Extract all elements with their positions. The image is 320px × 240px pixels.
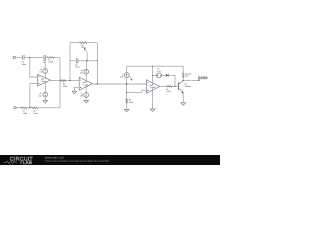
wire OA3 V- to ground (152, 88, 154, 109)
wire to OA3 non-inverting input (127, 90, 147, 92)
wire input to C1 (16, 56, 23, 58)
wire C1 to feedback node (24, 56, 44, 58)
wire V4 to ground (85, 97, 87, 100)
op-amp OA1 (37, 74, 50, 86)
resistor R3 interstage (61, 80, 66, 82)
watermark text (45, 157, 109, 164)
transistor Q1 (178, 81, 183, 94)
ground below R6 (124, 109, 129, 112)
svg-text:10.0k: 10.0k (63, 85, 67, 88)
capacitor C3 stage2 (76, 58, 78, 63)
junction output node stage1 (59, 80, 60, 81)
CircuitLab logo (4, 156, 34, 165)
label I1 value (120, 73, 124, 78)
junction + input branch (126, 92, 127, 93)
label R4 value (33, 110, 37, 115)
current source I1 body (124, 73, 129, 78)
wire OA3 output (160, 85, 167, 87)
wire I1 to R6 (126, 78, 128, 99)
ground below OA3 (150, 109, 155, 112)
terminal bottom VB (14, 107, 16, 109)
junction V5 branch (152, 75, 153, 76)
svg-text:1.00u: 1.00u (22, 63, 27, 66)
label R2 value (48, 58, 53, 63)
wire mid line right (78, 60, 97, 62)
label R7 value (166, 88, 170, 93)
resistor R4 bottom (31, 107, 38, 109)
wire OA2 non-inverting to ground (74, 87, 79, 91)
label R5 value (81, 44, 85, 49)
label C2 value (43, 59, 45, 64)
wire stage2 loop left vertical (69, 43, 71, 81)
wire stage2 loop right vertical (96, 43, 98, 84)
wire collector to output flag (183, 79, 198, 81)
voltage source V5 (157, 73, 162, 78)
wire R4 to stage1 right vertical (38, 107, 60, 109)
terminal input VA (13, 56, 15, 58)
wire OA2 output to OA3 (93, 83, 147, 85)
wire R3 to OA2 inverting input (66, 80, 79, 82)
wire mid line left (70, 60, 76, 62)
diode D1 (166, 74, 169, 77)
wire collector to R8 (182, 78, 184, 81)
label C3 value (75, 63, 79, 68)
label R6 value (129, 99, 133, 104)
wire emitter to ground (182, 92, 184, 103)
op-amp OA2 (79, 77, 92, 90)
svg-text:LAB: LAB (23, 160, 32, 165)
svg-text:1.00M: 1.00M (48, 61, 53, 64)
label C1 value (22, 61, 27, 66)
label Q1 value (185, 83, 191, 88)
svg-text:1.00k: 1.00k (33, 112, 37, 115)
ground below V2 (43, 101, 48, 104)
label V5 value (157, 68, 161, 73)
junction bottom node (29, 107, 30, 108)
junction mid line right (97, 60, 98, 61)
node A junction (29, 57, 30, 58)
wire V3 to OA2 V+ pin (85, 74, 87, 83)
wire D1 cathode (169, 74, 176, 76)
junction rail / OA3 supply (152, 66, 153, 67)
svg-text:1.00k: 1.00k (129, 101, 133, 104)
watermark bar (0, 155, 220, 165)
svg-text:LT1001: LT1001 (83, 83, 89, 86)
voltage source V4 (OA2 V-) (84, 93, 89, 98)
junction collector node (183, 80, 184, 81)
label R8 value (185, 72, 192, 77)
wire wiper stem to mid line (86, 53, 88, 61)
junction long wire / I1 branch (126, 83, 127, 84)
svg-text:2N3904: 2N3904 (185, 85, 191, 88)
svg-text:BUZZER1: BUZZER1 (199, 77, 209, 80)
resistor R2 feedback (47, 57, 55, 59)
wire V1 to OA1 V+ pin (44, 73, 46, 79)
svg-text:1.00k: 1.00k (166, 90, 170, 93)
resistor R6 to ground (126, 99, 128, 104)
op-amp OA3 (146, 80, 159, 94)
wire R1 to R4 (27, 107, 31, 109)
wire V5 to D1 (162, 74, 166, 76)
current source I1 (126, 74, 128, 75)
label V4 value (80, 92, 84, 97)
wire V2 to ground (44, 97, 46, 101)
capacitor C1 (23, 55, 25, 60)
voltage source V3 (OA2 V+) (84, 69, 89, 74)
resistor R8 load (182, 73, 184, 79)
wire rail to R8 (182, 66, 184, 72)
wire loop top left segment (70, 42, 79, 44)
wire top rail (127, 65, 184, 67)
wire D1 down to base node (174, 75, 176, 86)
junction wiper mid line (86, 60, 87, 61)
wire loop top right segment (87, 42, 97, 44)
wire bottom network to non-inverting input (30, 83, 37, 107)
wire R6 to ground (126, 103, 128, 109)
ground below Q1 (181, 103, 186, 106)
svg-text:http://circuitlab.com/circuit/: http://circuitlab.com/circuit/c6dc4b43u4… (45, 159, 109, 163)
svg-text:2n: 2n (43, 61, 45, 64)
wire node to V1 top (44, 57, 46, 68)
label V3 value (80, 69, 84, 74)
svg-text:50.0: 50.0 (185, 75, 188, 78)
resistor R1 bottom (20, 107, 27, 109)
ground below V4 (84, 100, 89, 103)
voltage source V2 (OA1 V-) (43, 92, 48, 97)
ground OA2 + input (72, 91, 77, 94)
wire OA1 output (51, 80, 61, 82)
wire R7 to Q1 base (172, 85, 178, 87)
potentiometer R5 element (79, 42, 87, 44)
potentiometer wiper arrow (84, 48, 87, 53)
wire OA2 V- pin to V4 (85, 85, 87, 93)
capacitor C2 feedback (44, 55, 46, 60)
label R1 value (23, 110, 27, 115)
wire terminal to R1 (16, 107, 20, 109)
resistor R7 base (167, 86, 173, 88)
junction loop right output (97, 83, 98, 84)
junction diode / base (174, 86, 175, 87)
label V2 value (38, 92, 42, 97)
wire rail corner to I1 (126, 66, 128, 73)
svg-text:1.00u: 1.00u (75, 66, 79, 69)
label V1 value (39, 68, 43, 73)
voltage source V1 (OA1 V+) (43, 69, 48, 74)
label R3 value (63, 83, 67, 88)
wire junction to V5 (153, 74, 157, 76)
wire mid line to V3 (85, 61, 87, 70)
wire rail to OA3 V+ pin (152, 66, 154, 85)
wire node A to op-amp inverting input (30, 57, 38, 77)
wire R2 to right side (54, 56, 60, 58)
wire OA1 V- pin to V2 (44, 81, 46, 92)
svg-text:1.00k: 1.00k (23, 112, 27, 115)
variable arrow on I1 (129, 76, 132, 80)
wire stage1 right vertical (59, 57, 61, 107)
junction stage2 feedback tap (69, 80, 70, 81)
net flag OUT box (198, 76, 209, 81)
